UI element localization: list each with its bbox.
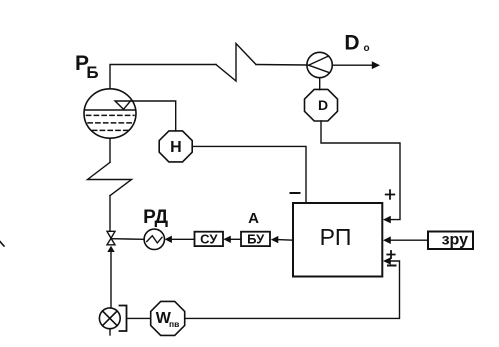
label plus (D input): [386, 190, 395, 199]
drum water dashes row 1: [87, 114, 135, 116]
wire W feedback to RP: [185, 261, 400, 318]
arrowhead into RP right bottom: [383, 257, 391, 265]
regulator RP box: [293, 203, 382, 277]
wire steam riser from drum top: [110, 65, 216, 89]
downcomer pipe upper: [109, 138, 111, 162]
feedwater valve: [107, 231, 115, 245]
svg-text:СУ: СУ: [200, 231, 218, 246]
wire restrictor to W sensor: [127, 317, 151, 319]
wire RP output to BU: [278, 239, 293, 242]
flow nozzle (orifice) circle: [307, 52, 332, 77]
SU box: [195, 232, 224, 246]
steam flow sensor D octagon: [305, 89, 338, 121]
wire steam line to flow nozzle: [256, 64, 307, 67]
wire valve to RD: [111, 238, 144, 241]
orifice bracket: [120, 306, 127, 332]
actuator RD circle: [144, 229, 164, 249]
svg-text:о: о: [363, 43, 369, 54]
arrowhead into RP right middle: [383, 236, 391, 244]
drum water dashes row 3: [93, 129, 129, 131]
svg-text:D: D: [344, 31, 359, 54]
wire SU to RD: [172, 238, 195, 240]
wire H sensor to RP minus input: [192, 146, 306, 203]
wire nozzle to D sensor: [319, 78, 321, 90]
drum water level line: [84, 109, 135, 111]
wire steam output: [332, 64, 372, 66]
wire BU to SU: [231, 238, 241, 240]
wire D sensor to RP plus input: [321, 121, 400, 220]
downcomer break symbol: [88, 162, 132, 195]
BU box: [241, 232, 270, 246]
svg-text:А: А: [248, 210, 259, 227]
downcomer pipe lower: [109, 196, 111, 232]
label minus (H input): [291, 192, 300, 194]
arrowhead into BU: [271, 236, 279, 243]
label plus (feedback input): [387, 251, 394, 258]
label W_pv: [156, 310, 180, 329]
level sensor H octagon: [159, 131, 192, 162]
svg-text:пв: пв: [169, 319, 179, 329]
wire ZRU to RP: [390, 239, 428, 241]
ZRU box manual control: [428, 232, 473, 250]
flow direction arrow below valve: [107, 246, 114, 252]
svg-text:D: D: [318, 97, 328, 113]
svg-text:Н: Н: [170, 139, 182, 156]
label D_o steam flow: [344, 31, 369, 54]
svg-text:Б: Б: [86, 63, 98, 82]
drum water dashes row 2: [88, 122, 133, 124]
svg-text:РД: РД: [143, 207, 168, 228]
svg-text:РП: РП: [320, 224, 352, 250]
drum (boiler drum vessel): [84, 89, 136, 138]
arrowhead into SU: [223, 236, 231, 243]
stray mark left edge: [0, 242, 4, 247]
arrowhead into RP right top: [383, 216, 391, 224]
feedwater restrictor circle with X: [99, 308, 120, 329]
feedwater pipe: [110, 250, 111, 335]
label P_B drum pressure: [75, 52, 99, 82]
drum level mark triangle: [115, 101, 131, 109]
wire drum to H sensor: [131, 101, 176, 131]
svg-text:зру: зру: [442, 231, 469, 248]
label minus (feedback input): [388, 265, 396, 267]
steam line break symbol: [216, 44, 256, 82]
arrowhead into RD: [165, 236, 172, 243]
feedwater flow sensor W octagon: [151, 301, 185, 335]
arrowhead steam output: [372, 61, 380, 69]
svg-text:БУ: БУ: [247, 231, 265, 246]
